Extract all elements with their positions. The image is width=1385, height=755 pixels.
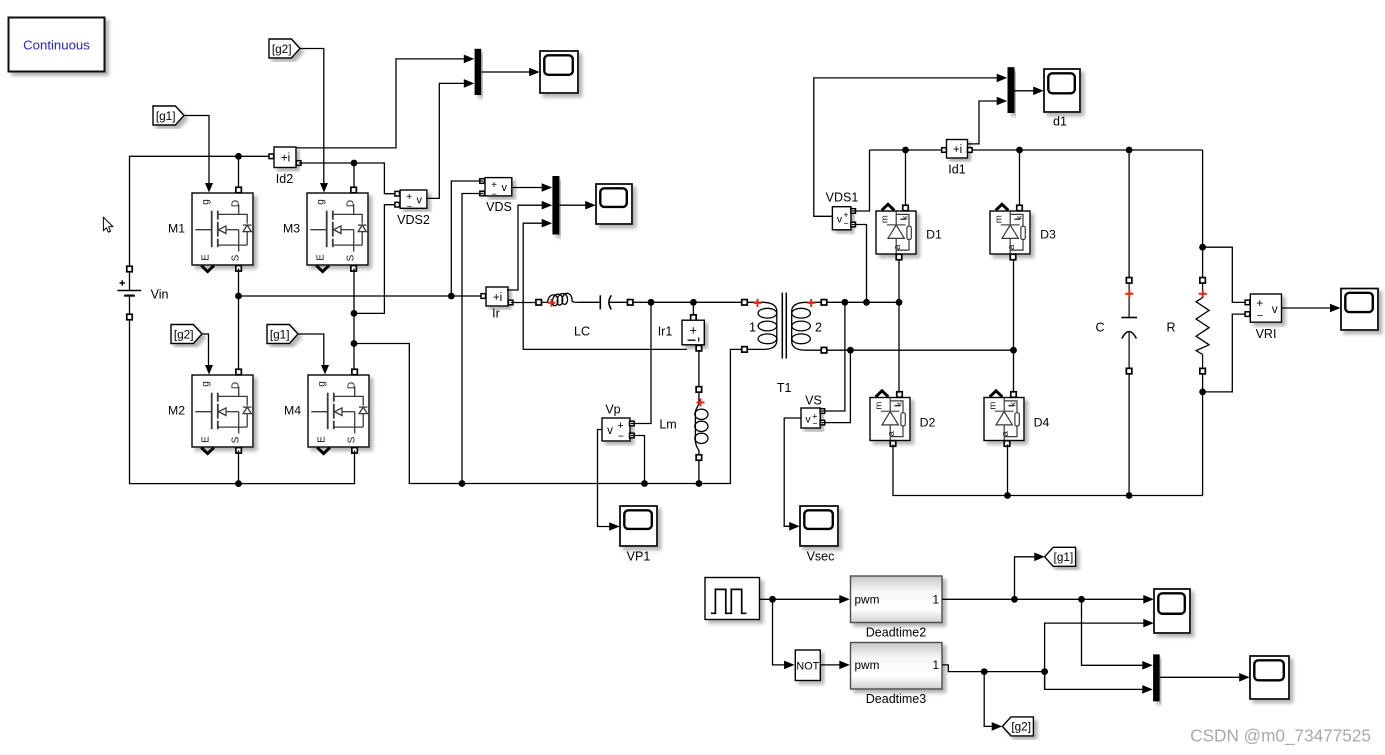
wire D1 anode / D2 cathode vertical	[898, 260, 900, 395]
svg-text:a: a	[886, 430, 897, 436]
logic NOT block	[795, 650, 820, 681]
svg-text:D1: D1	[926, 228, 942, 242]
svg-text:M3: M3	[283, 222, 300, 236]
scope Scope2	[596, 184, 632, 224]
diode D3	[990, 204, 1056, 259]
svg-text:v: v	[607, 425, 613, 437]
svg-text:Continuous: Continuous	[23, 38, 90, 53]
inductor Lm	[659, 387, 708, 487]
wire Deadtime3 branch to mux4 bottom	[1045, 672, 1153, 694]
resistor R branch	[1166, 150, 1209, 496]
node M1 drain tap	[235, 153, 242, 191]
wire From[g1] to M1 gate	[184, 116, 209, 186]
svg-text:v: v	[417, 194, 423, 206]
current measurement Id2	[269, 147, 301, 186]
svg-text:D: D	[347, 382, 358, 389]
svg-text:m: m	[988, 402, 999, 410]
svg-text:−: −	[407, 201, 412, 211]
subsystem Deadtime3	[851, 643, 943, 707]
svg-text:E: E	[317, 436, 328, 443]
wire D4 anode drop	[1007, 445, 1009, 496]
svg-text:1: 1	[932, 593, 939, 607]
svg-text:v: v	[1272, 302, 1278, 316]
cathode rail top	[870, 147, 1203, 154]
wire VRI - from R bottom node	[1203, 314, 1245, 392]
svg-text:[g1]: [g1]	[156, 109, 176, 123]
svg-text:M2: M2	[168, 404, 185, 418]
wire NOT to Deadtime3	[820, 661, 850, 670]
svg-text:g: g	[316, 199, 327, 205]
voltage measurement VDS2	[395, 190, 430, 227]
wire Vp - to return rail	[631, 436, 648, 487]
svg-text:CSDN @m0_73477525: CSDN @m0_73477525	[1190, 726, 1371, 746]
wire D3 anode / D4 cathode vertical	[1013, 260, 1015, 395]
leg B midpoint wire	[351, 269, 358, 373]
MOSFET M2	[168, 365, 253, 454]
svg-text:[g2]: [g2]	[272, 42, 292, 56]
negative rail bottom right	[893, 445, 1203, 499]
pulse generator	[705, 578, 760, 620]
voltage measurement VDS1	[826, 191, 859, 230]
wire Vp signal to scope VP1	[598, 430, 620, 531]
svg-text:VDS1: VDS1	[826, 191, 859, 205]
wire VRI + from R top node	[1203, 247, 1245, 302]
svg-text:S: S	[231, 254, 242, 261]
svg-text:+i: +i	[493, 292, 502, 304]
current measurement Ir	[481, 287, 513, 321]
wire VDS2 signal to mux1	[428, 79, 475, 198]
wire Ir1 signal to mux3	[523, 219, 687, 350]
svg-text:m: m	[874, 402, 885, 410]
svg-text:v: v	[501, 182, 507, 194]
svg-text:Deadtime2: Deadtime2	[866, 626, 926, 640]
wire VDS1 + to cathode rail	[852, 150, 870, 211]
wire VDS2 - to M3 source node	[354, 205, 395, 314]
CSDN watermark	[1190, 726, 1371, 746]
wire Deadtime2 out	[942, 595, 1154, 604]
node VDS+ tap on leg A output	[448, 293, 455, 300]
node Vp+ tap	[648, 299, 655, 306]
svg-text:D: D	[346, 200, 357, 207]
svg-text:C: C	[1095, 321, 1104, 335]
secondary bottom wire to rectifier	[827, 347, 1017, 354]
wire Id2 signal to mux1	[297, 55, 475, 148]
scope Vsec	[800, 506, 838, 564]
svg-text:−: −	[844, 219, 849, 229]
svg-text:g: g	[317, 381, 328, 387]
subsystem Deadtime2	[851, 576, 943, 640]
svg-text:Deadtime3: Deadtime3	[866, 692, 926, 706]
diode D1	[876, 204, 942, 259]
mouse cursor	[103, 217, 112, 232]
wire leg B to transformer return rail	[354, 344, 742, 484]
wire mux3 to scope2	[559, 201, 595, 210]
svg-text:[g2]: [g2]	[1011, 720, 1031, 734]
svg-text:VDS2: VDS2	[397, 213, 430, 227]
wire Id1 signal to mux2	[968, 97, 1007, 144]
svg-text:a: a	[1000, 430, 1011, 436]
From tag [g1] for M1 gate	[153, 106, 184, 125]
node M3 drain tap	[351, 160, 358, 191]
secondary top wire to rectifier	[827, 299, 902, 306]
mux Mux4	[1153, 654, 1160, 701]
svg-text:NOT: NOT	[796, 661, 819, 673]
svg-text:Vsec: Vsec	[807, 550, 835, 564]
svg-text:D2: D2	[920, 416, 936, 430]
wire mux2 to scope d1	[1015, 87, 1044, 96]
svg-text:Lm: Lm	[659, 418, 676, 432]
current measurement Ir1 (rotated)	[658, 315, 705, 351]
wire LC to transformer primary	[633, 301, 742, 303]
svg-text:1: 1	[932, 658, 939, 672]
transformer T1 secondary winding	[777, 299, 827, 395]
svg-text:S: S	[347, 436, 358, 443]
svg-text:+i: +i	[953, 144, 962, 156]
wire pulse branch to NOT	[773, 599, 795, 669]
svg-text:Vin: Vin	[151, 288, 169, 302]
svg-text:VRI: VRI	[1256, 327, 1277, 341]
svg-text:T1: T1	[777, 381, 792, 395]
svg-text:[g2]: [g2]	[174, 327, 194, 341]
wire D3 cathode drop	[1019, 150, 1021, 206]
svg-text:D4: D4	[1034, 416, 1050, 430]
wire VDS1 - to secondary top node	[852, 225, 867, 303]
mux Mux1	[475, 49, 482, 95]
svg-text:pwm: pwm	[855, 593, 880, 607]
wire Vp + to primary node	[631, 302, 652, 423]
diode D2	[870, 391, 936, 446]
transformer T1 primary winding	[742, 299, 777, 352]
wire From[g2] to M2 gate	[201, 334, 209, 367]
wire VS signal to scope Vsec	[784, 418, 801, 531]
wire mux1 to scope1	[481, 68, 540, 77]
wire From[g1] to M4 gate	[297, 334, 324, 367]
svg-text:E: E	[316, 254, 327, 261]
DC source Vin positive wire to Id2	[130, 156, 273, 266]
wire VS - to secondary bottom	[821, 350, 850, 422]
svg-text:R: R	[1166, 321, 1175, 335]
voltage measurement Vp	[602, 403, 634, 443]
From tag [g2] for M2 gate	[171, 325, 202, 344]
svg-text:−: −	[618, 431, 624, 443]
negative rail Vin- to M4 source	[130, 320, 355, 484]
voltage measurement VS	[801, 394, 825, 429]
svg-text:−: −	[492, 189, 497, 199]
scope Scope6	[1250, 656, 1289, 699]
capacitor C branch	[1095, 150, 1137, 496]
series RLC branch LC	[536, 293, 633, 338]
svg-text:d1: d1	[1053, 115, 1067, 129]
wire tap to Ir1	[692, 302, 694, 315]
voltage measurement VRI	[1245, 294, 1281, 341]
MOSFET M4	[284, 365, 369, 454]
wire Deadtime2 branch to mux4	[1082, 599, 1153, 669]
mux Mux2	[1008, 67, 1015, 113]
svg-text:m: m	[880, 215, 891, 223]
wire VDS + to leg A node	[451, 181, 483, 296]
svg-text:a: a	[1006, 244, 1017, 250]
svg-text:−: −	[1257, 310, 1263, 322]
svg-text:VDS: VDS	[486, 200, 512, 214]
svg-text:D3: D3	[1040, 228, 1056, 242]
From tag [g1] for M4 gate	[267, 325, 298, 344]
svg-text:Vp: Vp	[605, 403, 620, 417]
svg-text:LC: LC	[574, 325, 590, 339]
MOSFET M1	[168, 183, 253, 272]
scope Scope5 dual input	[1154, 589, 1190, 633]
svg-text:[g1]: [g1]	[270, 327, 290, 341]
scope VP1	[620, 506, 657, 564]
svg-text:Id2: Id2	[276, 172, 293, 186]
wire Ir signal to mux3	[507, 201, 552, 290]
scope ScopeVRI	[1341, 289, 1378, 331]
svg-text:E: E	[201, 436, 212, 443]
wire VDS1 signal to mux2	[814, 74, 1007, 217]
scope d1	[1044, 69, 1080, 129]
mux Mux3	[552, 176, 559, 235]
wire Ir out to LC	[511, 302, 536, 304]
wire to Goto [g2]	[984, 672, 1002, 731]
wire VS + to secondary top	[821, 302, 845, 411]
node Ir1 branch tap	[690, 299, 697, 306]
leg A midpoint wire	[235, 269, 483, 373]
svg-text:[g1]: [g1]	[1054, 550, 1074, 564]
svg-text:M1: M1	[168, 222, 185, 236]
svg-text:S: S	[346, 254, 357, 261]
svg-text:D: D	[231, 200, 242, 207]
wire VDS - to return rail	[459, 194, 483, 487]
svg-text:2: 2	[815, 321, 822, 335]
wire pulse to Deadtime2	[760, 595, 850, 604]
wire From[g2] to M3 gate	[299, 49, 324, 186]
svg-text:+: +	[1256, 296, 1263, 310]
wire Ir1 to Lm	[698, 351, 700, 387]
svg-text:g: g	[201, 381, 212, 387]
svg-text:VP1: VP1	[627, 550, 651, 564]
wire M2 source to negative rail	[235, 451, 242, 488]
svg-text:E: E	[201, 254, 212, 261]
wire Id2 out to M3 drain and VDS2 +	[299, 163, 395, 194]
wire mux4 to scope6	[1160, 673, 1250, 682]
svg-text:Ir: Ir	[492, 307, 500, 321]
wire Deadtime3 branch to scope5	[1045, 619, 1154, 690]
wire Deadtime3 out	[942, 665, 1048, 675]
diode D4	[984, 391, 1050, 446]
scope Scope1	[540, 51, 578, 93]
svg-text:M4: M4	[284, 404, 301, 418]
svg-text:D: D	[231, 382, 242, 389]
svg-text:a: a	[892, 244, 903, 250]
svg-text:VS: VS	[805, 394, 822, 408]
voltage measurement VDS	[480, 178, 512, 214]
wire D1 cathode drop	[905, 150, 907, 206]
svg-text:g: g	[201, 199, 212, 205]
wire VRI to scope	[1282, 304, 1341, 313]
svg-text:S: S	[231, 436, 242, 443]
svg-text:1: 1	[749, 321, 756, 335]
svg-text:v: v	[805, 414, 811, 426]
Goto tag [g2]	[1002, 717, 1033, 736]
current measurement Id1	[942, 140, 972, 177]
svg-text:−: −	[813, 419, 818, 429]
svg-text:+: +	[690, 324, 697, 338]
From tag [g2] for M3 gate	[269, 39, 300, 58]
Goto tag [g1]	[1045, 547, 1076, 566]
MOSFET M3	[283, 183, 368, 272]
wire VDS signal to mux3	[512, 183, 552, 192]
svg-text:Id1: Id1	[948, 163, 965, 177]
DC voltage source Vin	[117, 266, 168, 320]
powergui solver block Continuous	[9, 18, 105, 72]
svg-text:v: v	[837, 214, 843, 226]
transformer T1 core	[782, 293, 786, 359]
svg-text:m: m	[994, 215, 1005, 223]
wire to Goto [g1]	[1015, 553, 1045, 600]
svg-text:pwm: pwm	[855, 658, 880, 672]
svg-text:Ir1: Ir1	[658, 325, 673, 339]
svg-text:+i: +i	[281, 153, 290, 165]
